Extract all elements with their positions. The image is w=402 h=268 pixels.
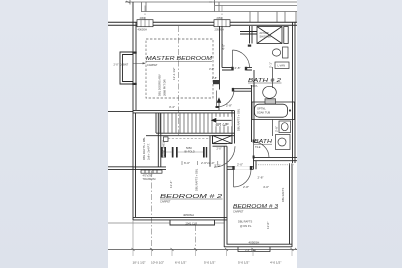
svg-text:DBL RAFTS: DBL RAFTS: [281, 188, 285, 202]
svg-text:2'-8": 2'-8": [275, 126, 279, 132]
svg-text:6R UP: 6R UP: [216, 122, 229, 127]
svg-text:TRANSOM: TRANSOM: [143, 177, 156, 181]
svg-text:11'-4": 11'-4": [169, 181, 173, 188]
svg-text:5050: 5050: [186, 146, 192, 150]
svg-text:11'-0": 11'-0": [266, 222, 270, 229]
svg-text:TILE: TILE: [255, 145, 261, 149]
svg-text:4050SH: 4050SH: [249, 241, 260, 245]
svg-text:10'-1 1/2": 10'-1 1/2": [133, 261, 146, 265]
svg-text:3'-4": 3'-4": [169, 105, 175, 109]
svg-text:2'-8": 2'-8": [243, 185, 249, 189]
svg-text:@ DN P.L.: @ DN P.L.: [240, 224, 252, 228]
svg-text:2'-0": 2'-0": [217, 146, 222, 150]
svg-text:5'-0 1/2": 5'-0 1/2": [204, 261, 215, 265]
svg-text:2668 PKT DR: 2668 PKT DR: [163, 79, 167, 96]
svg-text:2'-8": 2'-8": [258, 176, 264, 180]
svg-text:CARPET: CARPET: [147, 63, 158, 67]
svg-text:CARPET: CARPET: [233, 210, 244, 214]
svg-text:4'-0": 4'-0": [263, 185, 269, 189]
svg-text:SOAK TUB: SOAK TUB: [257, 111, 270, 115]
svg-text:2941 CLR: 2941 CLR: [186, 222, 198, 226]
svg-text:DBL RAFTS + DBL: DBL RAFTS + DBL: [142, 137, 146, 160]
svg-text:DBL DOORS ABV: DBL DOORS ABV: [158, 74, 162, 96]
svg-text:5'-0": 5'-0": [215, 164, 221, 168]
svg-text:4'-0 1/2": 4'-0 1/2": [270, 261, 281, 265]
svg-text:2'-0" CABNT: 2'-0" CABNT: [114, 62, 129, 66]
svg-text:13'-1 1/2": 13'-1 1/2": [172, 67, 176, 80]
svg-text:5'-0 1/2": 5'-0 1/2": [238, 261, 249, 265]
svg-text:6'-0": 6'-0": [184, 161, 190, 165]
svg-text:BI-FOLD: BI-FOLD: [185, 149, 195, 153]
svg-text:2'-6"x3'-0": 2'-6"x3'-0": [201, 161, 214, 165]
svg-text:3'-0": 3'-0": [209, 67, 214, 71]
svg-text:DBL RAFTS + DBL: DBL RAFTS + DBL: [195, 168, 199, 191]
svg-text:DBL RAFTS + DBL: DBL RAFTS + DBL: [237, 108, 241, 131]
svg-text:2'-0": 2'-0": [237, 163, 243, 167]
svg-text:2'-8": 2'-8": [226, 104, 232, 108]
svg-text:2'-8": 2'-8": [212, 76, 217, 80]
svg-text:2'-8": 2'-8": [235, 66, 241, 70]
svg-text:4050SH: 4050SH: [183, 213, 194, 217]
svg-text:24"X48": 24"X48": [260, 31, 269, 35]
svg-text:SHOWER: SHOWER: [260, 35, 272, 39]
svg-text:OPTNL: OPTNL: [257, 107, 266, 111]
svg-text:DBL RAFTS: DBL RAFTS: [238, 220, 252, 224]
svg-text:CARPET: CARPET: [160, 199, 171, 203]
svg-text:2x6 + 2x4 P.T.: 2x6 + 2x4 P.T.: [147, 143, 151, 160]
svg-text:10'-0 1/2": 10'-0 1/2": [151, 261, 164, 265]
svg-text:2'-1": 2'-1": [269, 62, 273, 68]
svg-text:3'-4" CLR: 3'-4" CLR: [245, 248, 256, 252]
svg-text:6'-0 1/2": 6'-0 1/2": [175, 261, 186, 265]
svg-text:4060SH: 4060SH: [138, 28, 148, 32]
svg-text:L-VAN: L-VAN: [278, 64, 286, 68]
